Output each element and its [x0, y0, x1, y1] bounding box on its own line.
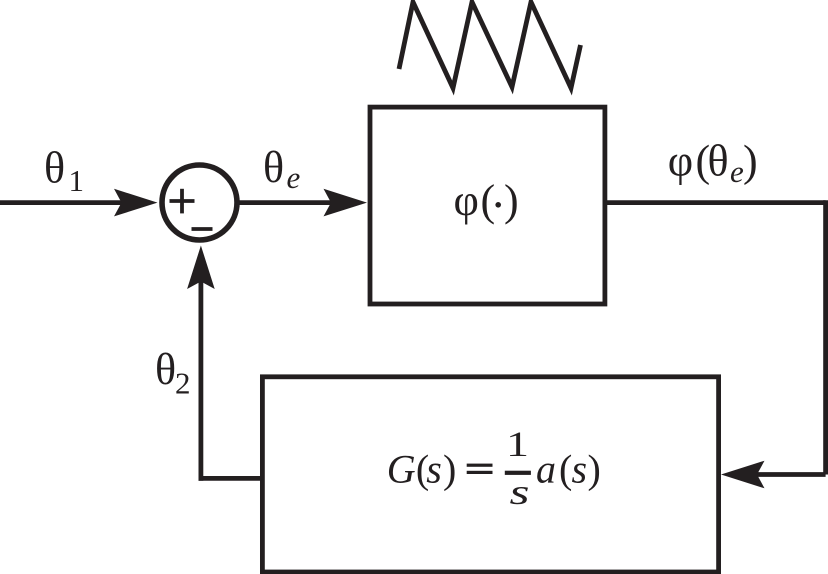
sawtooth characteristic above box	[399, 2, 581, 88]
arrowhead into summer bottom	[187, 246, 215, 290]
svg-text:G(s): G(s)	[387, 446, 457, 491]
svg-text:(: (	[481, 176, 496, 225]
svg-text:θ: θ	[44, 143, 65, 192]
G(s) feedback box	[262, 377, 718, 572]
svg-text:a(s): a(s)	[536, 446, 601, 491]
wire phi box to right	[604, 200, 826, 205]
svg-text:θ: θ	[263, 143, 284, 192]
svg-text:2: 2	[175, 366, 191, 401]
minus sign	[192, 227, 213, 231]
wire summer to phi box	[238, 200, 333, 205]
svg-text:e: e	[287, 160, 301, 195]
svg-text:s: s	[510, 472, 530, 512]
wire G box out left	[199, 476, 263, 481]
svg-text:): )	[504, 176, 519, 225]
svg-text:θ: θ	[708, 137, 729, 186]
svg-text:1: 1	[69, 163, 85, 198]
svg-text:φ: φ	[454, 176, 479, 225]
svg-text:e: e	[730, 154, 744, 189]
arrowhead into G box	[721, 461, 765, 489]
svg-text:φ: φ	[668, 137, 693, 186]
wire up to summer	[198, 280, 203, 481]
arrowhead into summer	[114, 189, 158, 217]
wire down right side	[823, 200, 828, 474]
arrowhead into phi box	[324, 189, 368, 217]
summing junction	[162, 165, 237, 240]
plus sign	[170, 199, 195, 203]
svg-text:1: 1	[506, 424, 529, 464]
svg-text:θ: θ	[155, 345, 176, 394]
equals sign	[467, 464, 493, 467]
svg-text:): )	[743, 137, 758, 186]
nonlinearity box phi	[370, 107, 605, 304]
wire input from left	[0, 200, 125, 205]
wire right into G box	[755, 472, 826, 477]
